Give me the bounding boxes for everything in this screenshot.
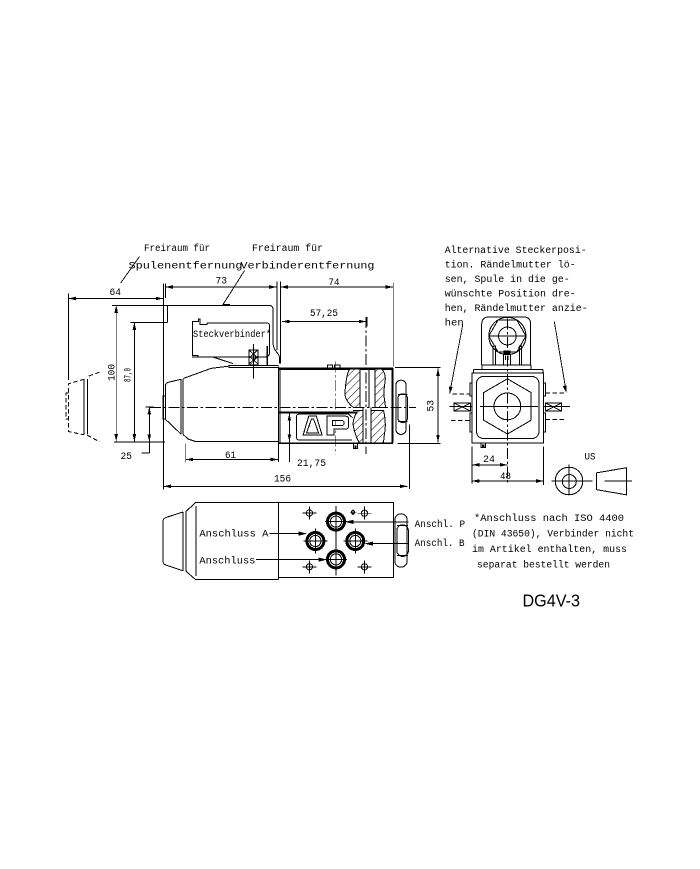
svg-text:48: 48 xyxy=(500,472,511,483)
bottom view cap junction double line xyxy=(183,511,186,572)
dim 74 xyxy=(280,283,393,367)
leader right to alt position xyxy=(554,321,565,388)
bolt centerline 2 xyxy=(365,317,367,454)
bottom pin endview xyxy=(481,443,486,447)
svg-text:24: 24 xyxy=(483,455,495,466)
bore verticals xyxy=(360,369,375,443)
bottom view end cap capsules xyxy=(395,514,407,567)
cap tab xyxy=(163,396,165,419)
svg-text:53: 53 xyxy=(427,400,438,412)
knurled nut hexagon xyxy=(489,320,526,352)
svg-text:DG4V-3: DG4V-3 xyxy=(523,591,581,611)
bolt hole TL xyxy=(306,510,312,516)
svg-text:Steckverbinder*: Steckverbinder* xyxy=(193,329,271,341)
hatch lower-right xyxy=(371,411,385,444)
end view crosshair xyxy=(480,405,538,407)
port P xyxy=(328,513,345,530)
leader left to alt position xyxy=(450,325,462,390)
connector pin hatched xyxy=(249,350,258,365)
bolt hole BR xyxy=(361,564,367,570)
coil/body junction line xyxy=(279,367,281,463)
svg-text:*Anschluss nach ISO 4400: *Anschluss nach ISO 4400 xyxy=(474,513,624,525)
svg-text:Freiraum für: Freiraum für xyxy=(252,243,323,255)
bottom view body rect xyxy=(279,503,394,580)
dim 24 xyxy=(472,447,507,484)
svg-text:87,0: 87,0 xyxy=(124,368,135,382)
hatch upper-right xyxy=(375,369,385,407)
bottom view coil/body junction xyxy=(278,503,280,580)
svg-text:(DIN 43650), Verbinder nicht: (DIN 43650), Verbinder nicht xyxy=(472,529,634,541)
svg-text:21,75: 21,75 xyxy=(297,459,326,470)
svg-text:sen, Spule in die ge-: sen, Spule in die ge- xyxy=(445,274,570,286)
center circle xyxy=(494,393,521,420)
freiraum envelope for connector xyxy=(168,305,280,363)
leader Anschluss T xyxy=(256,559,323,561)
leader freiraum verbinder xyxy=(223,271,245,305)
hatch lower-left xyxy=(353,411,363,444)
leader Anschluss A xyxy=(270,533,304,535)
valve body outline xyxy=(279,367,393,369)
svg-text:tion. Rändelmutter lö-: tion. Rändelmutter lö- xyxy=(445,260,576,272)
AP nameplate xyxy=(297,414,353,440)
bolt centerline 1 xyxy=(334,362,336,455)
leader Anschl P xyxy=(348,521,409,523)
port A xyxy=(307,533,324,550)
dim 64 xyxy=(68,284,165,381)
US projection symbol cone xyxy=(597,468,627,495)
knurled nut circle xyxy=(489,317,526,354)
nut inner circle xyxy=(499,327,517,345)
bolt hole BL xyxy=(306,564,312,570)
svg-text:separat bestellt werden: separat bestellt werden xyxy=(477,560,610,572)
right plug alt position xyxy=(545,403,561,411)
coil top double line xyxy=(229,365,279,367)
svg-text:US: US xyxy=(585,453,596,464)
svg-text:57,25: 57,25 xyxy=(310,309,338,320)
end view outer square xyxy=(472,373,544,443)
svg-text:Anschl. B: Anschl. B xyxy=(415,538,465,550)
bottom view cap trapezoid xyxy=(163,512,183,571)
hatch upper-left xyxy=(345,369,360,407)
cap junction double line xyxy=(181,379,183,434)
svg-text:im Artikel enthalten, muss: im Artikel enthalten, muss xyxy=(472,544,627,556)
stem xyxy=(503,351,510,354)
svg-text:Verbinderentfernung: Verbinderentfernung xyxy=(241,261,375,273)
port crosshairs xyxy=(303,506,367,576)
US projection symbol circle xyxy=(555,467,583,495)
locating pin below body xyxy=(354,443,358,449)
dim 73 xyxy=(165,282,280,364)
svg-text:Spulenentfernung: Spulenentfernung xyxy=(129,261,243,273)
leader freiraum spule xyxy=(121,257,140,284)
ghost cap junction double line xyxy=(84,379,87,434)
svg-text:Alternative Steckerposi-: Alternative Steckerposi- xyxy=(445,245,587,257)
dim 87,0 xyxy=(130,322,167,441)
bolt hole TR xyxy=(361,510,367,516)
dim 100 xyxy=(112,305,168,442)
legs xyxy=(493,346,521,366)
dim 61 xyxy=(186,444,279,463)
coil body outline xyxy=(183,366,278,442)
dim 57,25 xyxy=(282,317,367,327)
inner rounded square xyxy=(477,377,540,439)
ghost removed coil cap (dashed) xyxy=(66,372,100,442)
big hexagon xyxy=(484,379,532,434)
side tabs xyxy=(470,383,545,432)
svg-text:73: 73 xyxy=(216,277,228,288)
dim 21,75 xyxy=(288,413,290,462)
dim 25 xyxy=(142,407,154,453)
svg-text:Anschluss: Anschluss xyxy=(199,556,255,568)
bottom view coil outline xyxy=(186,503,278,580)
dim 53 xyxy=(395,368,441,444)
dim 48 xyxy=(472,447,544,486)
svg-text:156: 156 xyxy=(274,475,291,486)
svg-text:hen: hen xyxy=(445,318,464,330)
svg-text:25: 25 xyxy=(121,452,133,463)
nut crosshair xyxy=(489,335,526,337)
right end cap capsules xyxy=(396,380,406,434)
connector pin 2 dark xyxy=(266,346,268,365)
subplate face thick line xyxy=(279,411,356,413)
override bumps on top xyxy=(328,365,341,369)
nut housing rounded top xyxy=(482,317,531,365)
letter P xyxy=(327,416,349,435)
svg-text:hen, Rändelmutter anzie-: hen, Rändelmutter anzie- xyxy=(445,303,588,315)
port B xyxy=(347,533,364,550)
letter A xyxy=(303,416,322,435)
tiny pin hole xyxy=(351,511,354,514)
svg-text:Anschl. P: Anschl. P xyxy=(415,519,466,531)
svg-text:64: 64 xyxy=(110,288,122,299)
svg-text:Freiraum für: Freiraum für xyxy=(144,243,210,255)
left plug alt position xyxy=(454,403,471,411)
flange steps xyxy=(474,365,543,373)
leader Anschl B xyxy=(368,543,409,545)
side view centerline xyxy=(150,406,416,408)
steckverbinder outline xyxy=(193,319,233,364)
bore step lines xyxy=(353,410,381,412)
svg-text:61: 61 xyxy=(225,451,236,462)
dim 156 xyxy=(163,330,409,490)
svg-text:wünschte Position dre-: wünschte Position dre- xyxy=(445,289,576,301)
coil end cap xyxy=(165,379,181,434)
svg-text:Anschluss A: Anschluss A xyxy=(199,529,268,541)
svg-text:100: 100 xyxy=(108,364,119,381)
port T xyxy=(328,551,345,568)
svg-text:74: 74 xyxy=(329,278,340,289)
